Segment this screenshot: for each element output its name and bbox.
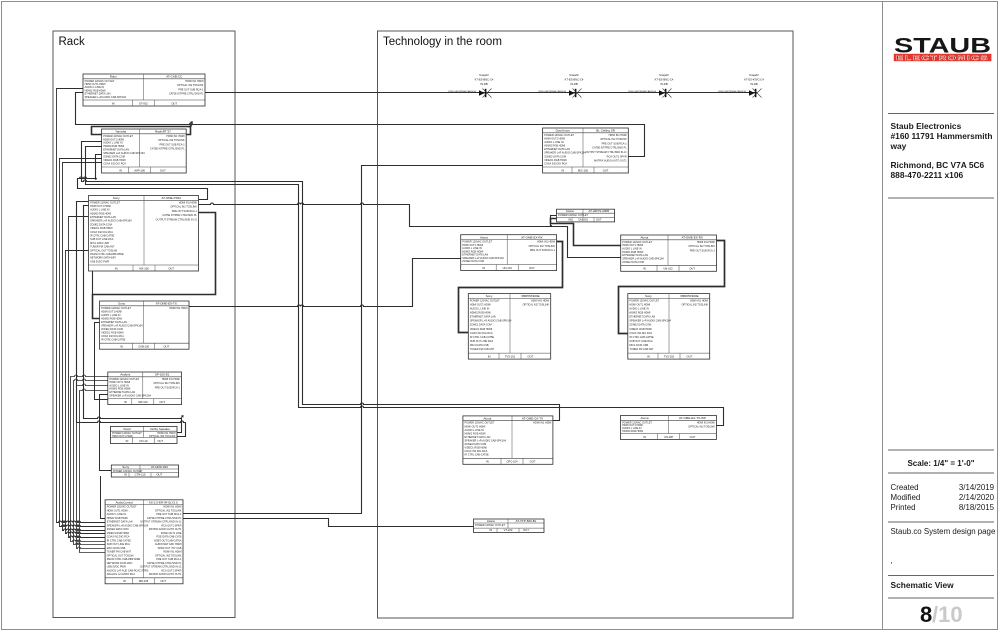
wire B7 to B8 (101, 477, 106, 519)
svg-text:HDMI IN1 HDMI: HDMI IN1 HDMI (162, 378, 180, 381)
svg-text:COAX IN2 DIG RCA: COAX IN2 DIG RCA (544, 162, 567, 165)
svg-text:ETHERNET DATA LAN: ETHERNET DATA LAN (544, 148, 570, 151)
svg-text:POE DATA CAB-CAT6: POE DATA CAB-CAT6 (156, 536, 182, 539)
sidebar divider 7 (888, 597, 994, 599)
svg-text:IN: IN (112, 101, 115, 105)
svg-text:PRE OUT SUB RCA-1: PRE OUT SUB RCA-1 (159, 143, 185, 146)
svg-text:HDBT OUT CAB-CAT6A: HDBT OUT CAB-CAT6A (154, 539, 182, 542)
svg-text:AT-VTP-800-BL: AT-VTP-800-BL (516, 519, 537, 523)
svg-text:HDMI2 RGB HDMI: HDMI2 RGB HDMI (544, 145, 565, 148)
svg-text:AT-OME-EX-RX: AT-OME-EX-RX (681, 236, 702, 240)
svg-text:XBR65X900E: XBR65X900E (680, 294, 699, 298)
svg-text:AUDIO RET ARC HDMI: AUDIO RET ARC HDMI (155, 543, 182, 546)
sidebar divider 6 (888, 575, 994, 577)
svg-text:IN: IN (123, 579, 126, 583)
wire B2 pin6 to v3 (63, 162, 102, 164)
device box T6 Sony TV right (628, 294, 710, 360)
svg-text:TUNER FM CAB ANT: TUNER FM CAB ANT (470, 348, 495, 351)
device box T8 wallplate (621, 416, 717, 440)
svg-text:OPTICAL IN2 TOSLINK: OPTICAL IN2 TOSLINK (177, 84, 204, 87)
svg-text:MATRIX AUDIO AUTO OUT1: MATRIX AUDIO AUTO OUT1 (149, 528, 182, 531)
svg-text:POWER 120VAC OUTLET: POWER 120VAC OUTLET (629, 299, 659, 302)
svg-text:Sony: Sony (118, 302, 125, 306)
svg-text:POWER 120VAC OUTLET: POWER 120VAC OUTLET (90, 201, 120, 204)
svg-text:CAT5E KITPRE CTRL/SND PL: CAT5E KITPRE CTRL/SND PL (169, 93, 204, 96)
svg-text:OUT: OUT (596, 217, 602, 221)
wire B2 loop (92, 127, 191, 135)
svg-text:HDMI2 RGB HDMI: HDMI2 RGB HDMI (107, 517, 128, 520)
svg-text:Dolby Speaker: Dolby Speaker (150, 427, 170, 431)
svg-text:TV3-102: TV3-102 (664, 355, 675, 359)
device box B1 Roku / AT-CAB-CC (83, 74, 205, 106)
svg-text:HDMI OUT1 HDMI: HDMI OUT1 HDMI (112, 435, 133, 438)
svg-text:Printed: Printed (891, 503, 916, 512)
svg-text:OUT: OUT (529, 266, 535, 270)
wire B5 pin1 to B8 (71, 375, 108, 542)
svg-text:OUT: OUT (689, 267, 695, 271)
svg-text:BL Ceiling SR: BL Ceiling SR (596, 129, 615, 133)
device box T5 Sony TV left (468, 294, 550, 360)
svg-text:OPTICAL IN2 TOSLINK: OPTICAL IN2 TOSLINK (170, 206, 197, 209)
svg-text:OPTICAL IN2 TOSLINK: OPTICAL IN2 TOSLINK (155, 554, 182, 557)
device box B2 Yamaha receiver (102, 129, 187, 173)
svg-text:CAB201: CAB201 (578, 217, 589, 221)
svg-text:Yamaha: Yamaha (115, 130, 126, 134)
device box B8 AudioControl amp (105, 500, 183, 584)
svg-text:,: , (891, 556, 893, 565)
svg-text:Schematic View: Schematic View (891, 580, 955, 590)
svg-text:CAT5E KITPRE CTRL/SND PL: CAT5E KITPRE CTRL/SND PL (150, 148, 185, 151)
svg-text:OUT: OUT (156, 472, 162, 476)
svg-text:UN-101: UN-101 (503, 266, 513, 270)
wire B5 pin3 to B8 (77, 384, 108, 549)
svg-text:DO-10: DO-10 (140, 439, 148, 443)
svg-text:Richmond, BC V7A 5C6: Richmond, BC V7A 5C6 (891, 160, 985, 170)
svg-text:OUT: OUT (171, 101, 177, 105)
svg-text:ELECTRONICS: ELECTRONICS (896, 55, 989, 62)
svg-text:Pearl: Pearl (123, 427, 130, 431)
svg-text:SUB OUT LINE RCA: SUB OUT LINE RCA (90, 238, 114, 241)
wire bus segment (205, 92, 757, 94)
svg-text:SPEAKER L+R AUDIO CAB-SPK164: SPEAKER L+R AUDIO CAB-SPK164 (85, 96, 127, 99)
svg-text:AT-OME-PS62: AT-OME-PS62 (161, 196, 181, 200)
svg-text:VIDEO1 RGB HDMI: VIDEO1 RGB HDMI (90, 227, 113, 230)
device box B5 Araknis switch (108, 372, 182, 405)
svg-text:Modified: Modified (891, 493, 921, 502)
svg-text:Atona: Atona (566, 209, 574, 213)
svg-text:PRE OUT SUB RCA-1: PRE OUT SUB RCA-1 (172, 210, 198, 213)
svg-text:ETHERNET DATA LAN: ETHERNET DATA LAN (101, 321, 127, 324)
svg-text:AUDIO L LINE IN: AUDIO L LINE IN (107, 513, 127, 516)
svg-text:SnapAV: SnapAV (659, 73, 669, 77)
svg-text:HDMI IN1 HDMI: HDMI IN1 HDMI (179, 201, 197, 204)
wire T2 jog (551, 216, 557, 227)
trunk v5 (69, 217, 106, 538)
svg-text:CAT5E KITPRE CTRL/SND PL: CAT5E KITPRE CTRL/SND PL (592, 147, 627, 150)
svg-text:SUB OUT LINE RCA: SUB OUT LINE RCA (107, 543, 131, 546)
svg-text:2/14/2020: 2/14/2020 (959, 493, 995, 502)
device box T1 ceiling speakers (543, 128, 629, 173)
svg-text:Atona: Atona (487, 519, 495, 523)
svg-text:OPTICAL IN2 TOSLINK: OPTICAL IN2 TOSLINK (688, 245, 715, 248)
svg-text:IN-DB: IN-DB (480, 82, 488, 86)
svg-text:HDMI OUT1 HDMI: HDMI OUT1 HDMI (470, 303, 491, 306)
svg-text:HDMI IN1 HDMI: HDMI IN1 HDMI (167, 135, 185, 138)
svg-text:PRE OUT SUB RCA-1: PRE OUT SUB RCA-1 (156, 513, 182, 516)
svg-text:MIC1 DATA USB: MIC1 DATA USB (470, 344, 489, 347)
svg-text:ANALOG L2 AUDIO RCA: ANALOG L2 AUDIO RCA (107, 573, 136, 576)
svg-text:8/18/2015: 8/18/2015 (959, 503, 995, 512)
svg-text:VT-103: VT-103 (504, 528, 513, 532)
svg-text:SnapAV: SnapAV (749, 73, 759, 77)
address block (890, 121, 993, 180)
svg-text:Created: Created (891, 483, 919, 492)
svg-text:MIC-150: MIC-150 (578, 168, 589, 172)
svg-text:OUTPUT STREAM CTRL/SND IN-J1: OUTPUT STREAM CTRL/SND IN-J1 (156, 219, 198, 222)
svg-text:USB 5VDC PWR: USB 5VDC PWR (107, 566, 126, 569)
svg-text:PRE OUT SUB RCA-1: PRE OUT SUB RCA-1 (530, 249, 556, 252)
svg-text:OUT: OUT (528, 355, 534, 359)
sidebar divider 4 (888, 472, 994, 474)
svg-text:ZONE2 DATA COM: ZONE2 DATA COM (462, 260, 484, 263)
antenna connector A3 (628, 73, 674, 97)
svg-text:Sony: Sony (113, 196, 120, 200)
svg-text:MX-106: MX-106 (139, 266, 149, 270)
svg-text:SPEAKER L+R AUDIO CAB-SPK164: SPEAKER L+R AUDIO CAB-SPK164 (465, 440, 507, 443)
svg-text:SPEAKER L+R AUDIO CAB-SPK164: SPEAKER L+R AUDIO CAB-SPK164 (107, 524, 149, 527)
svg-text:ZONE OUT2 LINE: ZONE OUT2 LINE (161, 532, 182, 535)
svg-text:OUT: OUT (687, 355, 693, 359)
svg-text:COAX IN2 DIG RCA: COAX IN2 DIG RCA (101, 335, 124, 338)
svg-text:AVR-100: AVR-100 (134, 168, 145, 172)
svg-text:ETHERNET DATA LAN: ETHERNET DATA LAN (90, 216, 116, 219)
svg-text:IR CTRL CAB-CAT5E: IR CTRL CAB-CAT5E (465, 454, 490, 457)
svg-text:IR CTRL CAB-CAT5E: IR CTRL CAB-CAT5E (470, 336, 495, 339)
trunk v3 (63, 163, 106, 531)
wire B1 pin stub to v1 (57, 88, 83, 90)
svg-text:HDMI2 RGB HDMI: HDMI2 RGB HDMI (622, 430, 643, 433)
svg-text:/10: /10 (932, 602, 963, 627)
svg-text:ZONE2 DATA COM: ZONE2 DATA COM (107, 528, 129, 531)
svg-text:CPC-104: CPC-104 (506, 460, 518, 464)
svg-text:ETHERNET DATA LAN: ETHERNET DATA LAN (629, 316, 655, 319)
wire B3 pin to v4 (66, 250, 89, 252)
antenna connector A2 (538, 73, 584, 97)
svg-text:AT-OME-EX-TX: AT-OME-EX-TX (156, 302, 177, 306)
svg-text:ST-X02: ST-X02 (139, 101, 148, 105)
wire B3 to B6 upper (84, 206, 182, 433)
svg-text:IN: IN (643, 267, 646, 271)
svg-text:Staub.co System design page: Staub.co System design page (891, 527, 996, 536)
svg-text:RS232 CTRL CAB-DB9 WIRE: RS232 CTRL CAB-DB9 WIRE (90, 253, 124, 256)
wire B3 to B4 (93, 213, 216, 319)
svg-text:Rack: Rack (59, 36, 85, 48)
svg-text:AT-CAB-CC: AT-CAB-CC (166, 75, 183, 79)
svg-text:HDMI IN1 HDMI: HDMI IN1 HDMI (185, 80, 203, 83)
svg-text:HDMI IN1 HDMI: HDMI IN1 HDMI (697, 241, 715, 244)
svg-text:KT-ES-BNC-C4: KT-ES-BNC-C4 (655, 78, 674, 82)
svg-text:Sony: Sony (645, 294, 652, 298)
svg-text:IN-DB: IN-DB (750, 82, 758, 86)
junction J2 (550, 225, 552, 227)
svg-text:888-470-2211 x106: 888-470-2211 x106 (891, 170, 964, 180)
svg-text:IN: IN (561, 168, 564, 172)
svg-text:MATRIX AUDIO AUTO OUT1: MATRIX AUDIO AUTO OUT1 (149, 573, 182, 576)
svg-text:OPTICAL IN2 TOSLINK: OPTICAL IN2 TOSLINK (153, 382, 180, 385)
svg-text:CAT5E KITPRE CTRL/SND PL: CAT5E KITPRE CTRL/SND PL (147, 562, 182, 565)
svg-text:IN: IN (488, 355, 491, 359)
svg-text:RS232 CTRL CAB-DB9 WIRE: RS232 CTRL CAB-DB9 WIRE (107, 558, 141, 561)
svg-text:COAX IN2 DIG RCA: COAX IN2 DIG RCA (629, 332, 652, 335)
wire B8 to T9 (183, 519, 474, 527)
svg-text:HDMI IN1 HDMI: HDMI IN1 HDMI (609, 134, 627, 137)
device box T9 touch panel (474, 519, 545, 533)
svg-text:TV3-101: TV3-101 (505, 355, 516, 359)
svg-text:IN: IN (486, 460, 489, 464)
svg-text:HDMI IN1 HDMI: HDMI IN1 HDMI (163, 551, 181, 554)
svg-text:VIDEO ANTENNA CAB-RG6: VIDEO ANTENNA CAB-RG6 (448, 90, 477, 93)
sidebar divider 1 (888, 113, 994, 115)
svg-text:IN: IN (119, 168, 122, 172)
svg-text:IR CTRL CAB-CAT5E: IR CTRL CAB-CAT5E (629, 336, 654, 339)
svg-text:TUNER FM CAB ANT: TUNER FM CAB ANT (90, 246, 115, 249)
svg-text:OUT: OUT (160, 168, 166, 172)
svg-text:IN: IN (124, 472, 127, 476)
section Technology in the room (378, 31, 794, 618)
svg-text:#160 11791 Hammersmith: #160 11791 Hammersmith (891, 131, 993, 141)
svg-text:OPTICAL IN2 TOSLINK: OPTICAL IN2 TOSLINK (523, 304, 550, 307)
svg-text:COAX IN2 DIG RCA: COAX IN2 DIG RCA (465, 450, 488, 453)
svg-text:HDMI OUT1 HDMI: HDMI OUT1 HDMI (101, 310, 122, 313)
svg-text:ETHERNET DATA LAN: ETHERNET DATA LAN (470, 316, 496, 319)
svg-text:IN: IN (115, 266, 118, 270)
svg-text:IN: IN (483, 266, 486, 270)
svg-text:MATRIX AUDIO AUTO OUT1: MATRIX AUDIO AUTO OUT1 (594, 160, 627, 163)
device box T2 AT-HDVS-200R (557, 209, 615, 222)
wire T2 out to T4 pin1 (551, 219, 621, 246)
svg-text:MIC1 DATA USB: MIC1 DATA USB (107, 547, 126, 550)
svg-text:OPTICAL IN2 TOSLINK: OPTICAL IN2 TOSLINK (529, 245, 556, 248)
svg-text:AT-OME-CA-TX: AT-OME-CA-TX (522, 417, 543, 421)
wire B2 pin5 to v2 (60, 158, 102, 160)
svg-text:OUTPUT STREAM CTRL/SND IN-J1: OUTPUT STREAM CTRL/SND IN-J1 (140, 521, 182, 524)
svg-text:PRE OUT SUB RCA-1: PRE OUT SUB RCA-1 (155, 386, 181, 389)
svg-text:ZONE2 DATA COM: ZONE2 DATA COM (629, 324, 651, 327)
svg-text:Technology in the room: Technology in the room (383, 36, 502, 48)
svg-text:COAX IN2 DIG RCA: COAX IN2 DIG RCA (470, 332, 493, 335)
svg-text:HDMI IN1 HDMI: HDMI IN1 HDMI (537, 241, 555, 244)
svg-text:OUT: OUT (523, 528, 529, 532)
svg-text:NETWORK DATA WIFI: NETWORK DATA WIFI (90, 257, 116, 260)
svg-text:VIDEO1 RGB HDMI: VIDEO1 RGB HDMI (470, 328, 493, 331)
svg-text:SnapAV: SnapAV (569, 73, 579, 77)
svg-text:SPEAKER L+R AUDIO CAB-SPK164: SPEAKER L+R AUDIO CAB-SPK164 (544, 152, 586, 155)
svg-text:KT-ES-BNC-C4: KT-ES-BNC-C4 (565, 78, 584, 82)
svg-text:VIDEO1 RGB HDMI: VIDEO1 RGB HDMI (107, 532, 130, 535)
wire B5 pin4 to B8 (80, 389, 108, 553)
svg-text:Sony: Sony (122, 465, 129, 469)
svg-text:CAT5E KITPRE CTRL/SND PL: CAT5E KITPRE CTRL/SND PL (147, 517, 182, 520)
svg-text:RCA OUT1 SPKR: RCA OUT1 SPKR (607, 155, 627, 158)
svg-text:RCA OUT1 SPKR: RCA OUT1 SPKR (161, 569, 181, 572)
svg-text:AUDIO L LINE IN: AUDIO L LINE IN (470, 308, 490, 311)
svg-text:COAX IN2 DIG RCA: COAX IN2 DIG RCA (103, 163, 126, 166)
svg-text:AUDIO L LINE IN: AUDIO L LINE IN (629, 308, 649, 311)
svg-text:AT-OME-EX-TX-WP: AT-OME-EX-TX-WP (679, 416, 706, 420)
svg-text:MIC1 DATA USB: MIC1 DATA USB (629, 344, 648, 347)
arrow on B2 loop (189, 124, 192, 127)
wire B4 to B5 (95, 323, 108, 400)
svg-text:AUDIO2 L+R AUD CAB-RCA2 STRM: AUDIO2 L+R AUD CAB-RCA2 STRM (107, 569, 149, 572)
svg-text:IR CTRL CAB-CAT5E: IR CTRL CAB-CAT5E (107, 539, 132, 542)
svg-text:DoorUnion: DoorUnion (556, 129, 571, 133)
trunk v1 (57, 89, 106, 523)
svg-text:AS-2.0-ER-IR-SLY2.0: AS-2.0-ER-IR-SLY2.0 (149, 500, 178, 504)
svg-text:OUT: OUT (160, 579, 166, 583)
svg-text:COAX IN2 DIG RCA: COAX IN2 DIG RCA (90, 231, 113, 234)
svg-text:UN-102: UN-102 (663, 267, 673, 271)
section Rack (53, 31, 235, 618)
svg-text:IN-DB: IN-DB (660, 82, 668, 86)
svg-text:VIDEO1 RGB HDMI: VIDEO1 RGB HDMI (465, 447, 488, 450)
svg-text:OUT: OUT (168, 266, 174, 270)
svg-text:CAT5E KITPRE CTRL/SND PL: CAT5E KITPRE CTRL/SND PL (162, 214, 197, 217)
svg-text:ETHERNET DATA LAN: ETHERNET DATA LAN (107, 521, 133, 524)
svg-text:ETHERNET DATA LAN: ETHERNET DATA LAN (465, 436, 491, 439)
svg-text:OUT: OUT (603, 168, 609, 172)
svg-text:HDMI OUT1 HDMI: HDMI OUT1 HDMI (465, 425, 486, 428)
svg-text:way: way (890, 141, 907, 151)
svg-text:PRE OUT SUB RCA-1: PRE OUT SUB RCA-1 (602, 142, 628, 145)
svg-text:MIC1 DATA USB: MIC1 DATA USB (90, 242, 109, 245)
svg-text:HDMI IN1 HDMI: HDMI IN1 HDMI (163, 506, 181, 509)
svg-text:NETWORK DATA WIFI: NETWORK DATA WIFI (107, 562, 133, 565)
svg-text:RM-105: RM-105 (139, 579, 149, 583)
device box B6 Pearl Dolby (110, 426, 177, 443)
trunk v4 (66, 251, 106, 534)
svg-text:OPTICAL IN2 TOSLINK: OPTICAL IN2 TOSLINK (149, 435, 176, 438)
svg-text:Araknis: Araknis (120, 373, 131, 377)
svg-text:SPEAKER L+R AUDIO CAB-SPK164: SPEAKER L+R AUDIO CAB-SPK164 (629, 320, 671, 323)
svg-text:Atona: Atona (641, 416, 649, 420)
svg-text:SW-110: SW-110 (138, 400, 148, 404)
junction J1 (95, 178, 97, 180)
wire B3 to B6 lower (77, 202, 186, 437)
svg-text:OUT: OUT (530, 460, 536, 464)
svg-text:AUDIO L LINE IN: AUDIO L LINE IN (465, 429, 485, 432)
svg-text:RCA OUT1 SPKR: RCA OUT1 SPKR (161, 524, 181, 527)
svg-text:OPTICAL OUT TOSLNK: OPTICAL OUT TOSLNK (107, 554, 134, 557)
svg-text:OUT: OUT (163, 345, 169, 349)
svg-text:SnapAV: SnapAV (479, 73, 489, 77)
svg-text:SPEAKER L+R AUDIO CAB-SPK164: SPEAKER L+R AUDIO CAB-SPK164 (470, 320, 512, 323)
wire B2 to T8 (86, 147, 724, 426)
svg-text:OPTICAL IN2 TOSLINK: OPTICAL IN2 TOSLINK (158, 139, 185, 142)
svg-text:CTN-110: CTN-110 (135, 472, 146, 476)
svg-text:OUT: OUT (690, 435, 696, 439)
svg-text:XBR55X900E: XBR55X900E (521, 294, 540, 298)
antenna connector A4 (718, 73, 764, 97)
svg-text:SPEAKER L+R AUDIO CAB-SPK164: SPEAKER L+R AUDIO CAB-SPK164 (109, 394, 151, 397)
svg-text:ZONE2 DATA COM: ZONE2 DATA COM (90, 223, 112, 226)
device box T7 AT-OME-CA-TX (463, 416, 553, 464)
svg-text:HDMI2 RGB HDMI: HDMI2 RGB HDMI (470, 312, 491, 315)
svg-text:KT-ES-43VC-C4: KT-ES-43VC-C4 (744, 78, 764, 82)
svg-text:USB 5VDC PWR: USB 5VDC PWR (90, 260, 109, 263)
svg-text:VIDEO ANTENNA CAB-RG6: VIDEO ANTENNA CAB-RG6 (718, 90, 747, 93)
svg-text:POWER 120VAC OUTLET: POWER 120VAC OUTLET (475, 524, 505, 527)
svg-text:Staub Electronics: Staub Electronics (891, 121, 962, 131)
svg-text:IR CTRL CAB-CAT5E: IR CTRL CAB-CAT5E (90, 234, 115, 237)
svg-text:KT-ES-BNC-C4: KT-ES-BNC-C4 (475, 78, 494, 82)
svg-text:HDMI IN1 HDMI: HDMI IN1 HDMI (531, 299, 549, 302)
svg-text:Atona: Atona (640, 236, 648, 240)
svg-text:Sony: Sony (486, 294, 493, 298)
device box B7 power (111, 465, 178, 477)
svg-text:AUDIO L LINE IN: AUDIO L LINE IN (544, 141, 564, 144)
svg-text:IN: IN (124, 400, 127, 404)
svg-text:COAX IN2 DIG RCA: COAX IN2 DIG RCA (107, 536, 130, 539)
svg-text:IN-DB: IN-DB (570, 82, 578, 86)
svg-text:ZONE2 DATA COM: ZONE2 DATA COM (465, 443, 487, 446)
svg-text:POWER 120VAC OUTLET: POWER 120VAC OUTLET (558, 214, 588, 217)
svg-text:VIDEO ANTENNA CAB-RG6: VIDEO ANTENNA CAB-RG6 (628, 90, 657, 93)
svg-text:IN: IN (120, 345, 123, 349)
wire B2 to B3 chain (78, 155, 208, 200)
svg-text:IN: IN (489, 528, 492, 532)
svg-text:HDMI OUT1 HDMI: HDMI OUT1 HDMI (544, 137, 565, 140)
svg-text:OPTICAL IN2 TOSLINK: OPTICAL IN2 TOSLINK (688, 426, 715, 429)
svg-text:POWER 120VAC OUTLET: POWER 120VAC OUTLET (107, 506, 137, 509)
svg-text:HDMI OUT1 HDMI: HDMI OUT1 HDMI (107, 509, 128, 512)
svg-text:AT-OME-EX-RX: AT-OME-EX-RX (521, 235, 542, 239)
wire B4 to T3 (189, 259, 461, 307)
wire B5 to B7 (100, 395, 112, 471)
svg-text:HDMI IN1 HDMI: HDMI IN1 HDMI (169, 307, 187, 310)
svg-text:PRE OUT SUB RCA-1: PRE OUT SUB RCA-1 (178, 88, 204, 91)
svg-text:OPTICAL IN2 TOSLINK: OPTICAL IN2 TOSLINK (155, 509, 182, 512)
svg-text:POWER 120VAC OUTLET: POWER 120VAC OUTLET (465, 422, 495, 425)
svg-text:HDMI2 RGB HDMI: HDMI2 RGB HDMI (90, 212, 111, 215)
wire B1 to T1 long run (76, 93, 645, 157)
svg-text:OUT: OUT (157, 439, 163, 443)
svg-text:8: 8 (920, 602, 932, 627)
svg-text:VIDEO ANTENNA CAB-RG6: VIDEO ANTENNA CAB-RG6 (538, 90, 567, 93)
svg-text:POWER 120VAC OUTLET: POWER 120VAC OUTLET (470, 299, 500, 302)
device box B4 Sony AT-OME-EX-TX (100, 301, 190, 349)
svg-text:HDMI2 RGB HDMI: HDMI2 RGB HDMI (629, 312, 650, 315)
svg-text:HDMI IN1 HDMI: HDMI IN1 HDMI (690, 299, 708, 302)
svg-text:VIDEO1 RGB HDMI: VIDEO1 RGB HDMI (629, 328, 652, 331)
sidebar divider 3 (888, 449, 994, 451)
svg-text:OUTPUT STREAM CTRL/SND IN-J1: OUTPUT STREAM CTRL/SND IN-J1 (585, 151, 627, 154)
svg-text:HDMI OUT1 HDMI: HDMI OUT1 HDMI (90, 205, 111, 208)
device box B3 Sony AT-OME-PS62 (89, 196, 199, 272)
svg-text:TUNER FM CAB ANT: TUNER FM CAB ANT (107, 551, 132, 554)
svg-text:OPTICAL OUT TOSLNK: OPTICAL OUT TOSLNK (90, 249, 117, 252)
arrow on long run (189, 122, 192, 125)
wire B3 bottom stub (92, 272, 94, 295)
svg-text:HDMI IN1 HDMI: HDMI IN1 HDMI (533, 422, 551, 425)
svg-text:IN: IN (126, 439, 129, 443)
wire B8 to T1 left (183, 166, 543, 514)
device box T4 AT-OME-EX-RX right (621, 235, 717, 271)
sidebar divider 5 (888, 521, 994, 523)
svg-text:IN: IN (568, 217, 571, 221)
logo red bar ELECTRONICS (894, 54, 992, 61)
svg-text:PRE OUT SUB RCA-1: PRE OUT SUB RCA-1 (690, 249, 716, 252)
title block separator (882, 2, 884, 630)
